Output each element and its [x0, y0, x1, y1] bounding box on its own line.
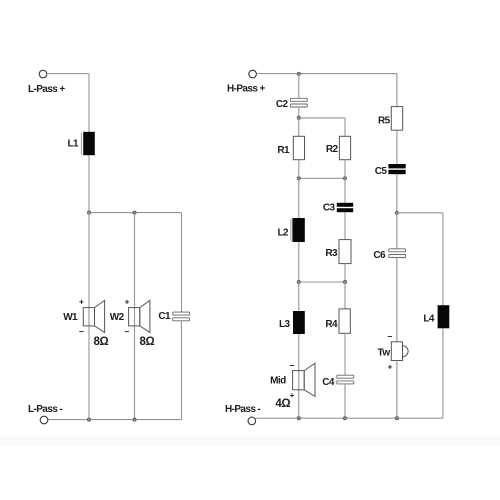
- node D junction: [133, 418, 136, 421]
- terminal L-Pass -: [40, 416, 48, 424]
- capacitor C3: [337, 203, 353, 212]
- resistor R4: [339, 309, 350, 333]
- resistor R1: [293, 136, 304, 159]
- svg-text:−: −: [125, 327, 130, 337]
- svg-text:C3: C3: [323, 203, 336, 214]
- wire C5 to node K: [396, 174, 398, 213]
- terminal H-Pass +: [249, 70, 257, 78]
- node M junction: [343, 417, 346, 420]
- wire node bus left: [89, 212, 182, 214]
- svg-text:L4: L4: [423, 313, 435, 324]
- node K junction: [395, 211, 398, 214]
- svg-text:+: +: [79, 297, 84, 307]
- svg-text:Tw: Tw: [378, 348, 391, 359]
- node N junction: [395, 417, 398, 420]
- resistor R3: [339, 240, 351, 264]
- wire node F bus: [299, 117, 345, 119]
- svg-text:+: +: [290, 390, 295, 400]
- wire Tw down: [396, 361, 398, 419]
- wire node K bus to L4 branch: [397, 212, 443, 214]
- wire C3 to R3: [344, 212, 346, 239]
- wire R1 down: [298, 160, 300, 179]
- wire to C2: [298, 74, 300, 99]
- wire to L2: [298, 178, 300, 218]
- terminal H-Pass -: [248, 417, 256, 425]
- capacitor C1: [173, 312, 190, 321]
- wire C2 to node F: [298, 107, 300, 118]
- capacitor C5: [388, 164, 405, 174]
- node E junction: [297, 72, 300, 75]
- capacitor C6: [389, 249, 406, 258]
- wire to C6: [396, 213, 398, 249]
- node J junction: [343, 280, 346, 283]
- node H junction: [343, 177, 346, 180]
- node F junction: [297, 116, 300, 119]
- wire down to L1: [88, 74, 90, 132]
- footer shading band: [0, 437, 500, 446]
- resistor R2: [339, 136, 350, 159]
- svg-text:+: +: [125, 297, 130, 307]
- svg-text:−: −: [388, 331, 393, 341]
- svg-text:L1: L1: [68, 139, 80, 150]
- node C junction: [87, 418, 90, 421]
- inductor L3: [293, 311, 305, 334]
- terminal L-Pass +: [39, 70, 47, 78]
- svg-text:8Ω: 8Ω: [140, 336, 155, 348]
- wire R5 to C5: [396, 130, 398, 164]
- wire W2 branch: [134, 213, 136, 420]
- svg-text:R1: R1: [277, 145, 290, 156]
- svg-text:Mid: Mid: [270, 376, 286, 387]
- tweeter Tw: [391, 342, 408, 361]
- wire top-left horizontal: [47, 73, 89, 75]
- wire W1 branch: [88, 213, 90, 420]
- svg-text:L-Pass +: L-Pass +: [28, 84, 65, 95]
- wire L4 branch lower: [442, 328, 444, 418]
- capacitor C2: [290, 98, 307, 107]
- wire bottom bus left: [48, 419, 182, 421]
- wire node G bus: [299, 177, 345, 179]
- wire to L3: [298, 282, 300, 311]
- svg-text:H-Pass -: H-Pass -: [225, 404, 260, 415]
- node B junction: [133, 211, 136, 214]
- speaker W1: [83, 300, 104, 332]
- svg-text:L2: L2: [278, 228, 290, 239]
- wire to R5: [396, 74, 398, 107]
- wire to R2: [344, 118, 346, 136]
- node L junction: [297, 417, 300, 420]
- svg-text:C2: C2: [276, 99, 289, 110]
- wire C4 down: [344, 384, 346, 418]
- speaker W2: [129, 300, 150, 332]
- wire to C3: [344, 178, 346, 203]
- svg-text:−: −: [79, 327, 84, 337]
- wire R4 to C4: [344, 333, 346, 375]
- svg-text:C5: C5: [375, 166, 388, 177]
- svg-text:−: −: [290, 360, 295, 370]
- wire L2 down: [298, 242, 300, 282]
- wire node I bus: [299, 281, 345, 283]
- svg-text:R2: R2: [326, 144, 339, 155]
- svg-text:R3: R3: [325, 248, 338, 259]
- wire L3 to Mid and bottom: [298, 334, 300, 418]
- svg-text:H-Pass +: H-Pass +: [227, 84, 265, 95]
- inductor L4: [438, 305, 450, 328]
- node G junction: [297, 177, 300, 180]
- capacitor C4: [337, 375, 354, 384]
- svg-text:R5: R5: [378, 116, 391, 127]
- wire R3 down: [344, 264, 346, 282]
- wire bottom bus right: [256, 417, 443, 419]
- wire to R1: [298, 118, 300, 136]
- wire to R4: [344, 282, 346, 309]
- svg-text:8Ω: 8Ω: [94, 336, 109, 348]
- svg-text:C1: C1: [158, 311, 171, 322]
- inductor L1: [81, 132, 94, 155]
- svg-text:L3: L3: [279, 319, 291, 330]
- node A junction: [87, 211, 90, 214]
- svg-text:L-Pass -: L-Pass -: [28, 404, 62, 415]
- svg-text:4Ω: 4Ω: [275, 398, 290, 410]
- speaker Mid: [293, 363, 315, 396]
- wire C1 branch upper: [181, 213, 183, 313]
- svg-text:C6: C6: [373, 250, 386, 261]
- wire R2 down: [344, 160, 346, 179]
- wire L4 branch upper: [442, 213, 444, 305]
- wire C1 branch lower: [181, 321, 183, 420]
- wire top bus right: [256, 73, 397, 75]
- svg-text:R4: R4: [325, 319, 338, 330]
- inductor L2: [291, 218, 305, 242]
- svg-text:+: +: [388, 361, 393, 371]
- svg-text:C4: C4: [322, 377, 335, 388]
- node I junction: [297, 280, 300, 283]
- wire C6 to Tw: [396, 258, 398, 342]
- svg-text:W2: W2: [110, 312, 125, 323]
- wire L1 to node A: [88, 155, 90, 212]
- svg-text:W1: W1: [63, 312, 78, 323]
- resistor R5: [391, 107, 402, 131]
